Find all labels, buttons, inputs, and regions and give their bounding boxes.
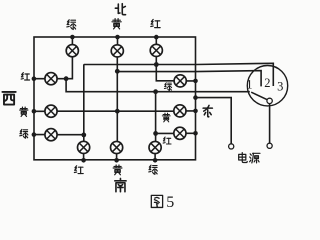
svg-text:3: 3 <box>277 79 283 93</box>
svg-text:1: 1 <box>246 77 252 91</box>
svg-text:2: 2 <box>264 76 270 90</box>
svg-text:5: 5 <box>166 194 174 211</box>
